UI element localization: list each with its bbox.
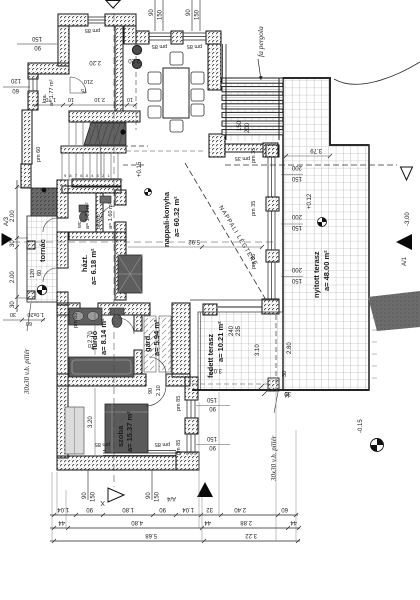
bathtub — [69, 357, 134, 377]
svg-text:pm 85: pm 85 — [152, 43, 167, 49]
glass wall pane 2 — [268, 211, 275, 250]
svg-text:90: 90 — [86, 506, 93, 512]
bath vanity sinks — [69, 308, 102, 325]
svg-text:pm 85: pm 85 — [73, 313, 79, 328]
svg-text:a= 1.60 m²: a= 1.60 m² — [108, 202, 114, 229]
svg-text:pm 85: pm 85 — [176, 440, 182, 455]
svg-text:150: 150 — [206, 396, 217, 402]
svg-text:150: 150 — [237, 120, 243, 131]
top window callout 1 — [149, 0, 164, 31]
open triangle marker top-right — [401, 167, 413, 180]
svg-text:nyitott terasz: nyitott terasz — [312, 251, 321, 298]
svg-text:fa pergola: fa pergola — [256, 26, 265, 57]
svg-text:wc.: wc. — [77, 219, 83, 229]
svg-text:a= 60.32 m²: a= 60.32 m² — [172, 196, 181, 237]
svg-text:2.00: 2.00 — [10, 210, 16, 222]
stair dark flight texture — [89, 123, 125, 145]
szoba south wall — [57, 456, 176, 470]
svg-text:-0.15: -0.15 — [358, 419, 364, 433]
covered terrace (fedett terasz) paved grid — [198, 312, 283, 390]
svg-text:pm 85: pm 85 — [95, 441, 110, 447]
dining chairs left — [148, 52, 204, 132]
terrace south edge heavy line — [192, 389, 369, 391]
west wall step down — [22, 110, 32, 164]
szoba wardrobe — [65, 407, 84, 454]
bottom window callout left — [82, 470, 97, 502]
door arc hall — [101, 206, 115, 220]
svg-text:32: 32 — [206, 506, 213, 512]
kamra door dims — [81, 78, 93, 93]
bath north wall left — [57, 303, 80, 315]
svg-text:a= 10.21 m²: a= 10.21 m² — [216, 321, 225, 362]
szoba east window 1 — [187, 400, 195, 418]
glass wall pier 3 — [266, 250, 279, 262]
gard door dims 90/210 — [148, 385, 162, 396]
section marker A/4 filled triangle — [166, 482, 213, 501]
szoba east wall top piece — [185, 377, 198, 400]
bath-gard divider — [134, 315, 142, 331]
svg-text:30: 30 — [10, 301, 16, 308]
door arc gard — [149, 357, 166, 374]
svg-text:pm 85: pm 85 — [187, 43, 202, 49]
szoba bed — [105, 404, 148, 453]
gard closet strips — [144, 316, 171, 372]
svg-text:3.02: 3.02 — [210, 367, 222, 373]
svg-text:235: 235 — [236, 325, 242, 336]
west wall below window — [28, 91, 38, 110]
glass wall SE corner — [262, 299, 279, 314]
room label gard — [143, 319, 161, 356]
stair hall south wall — [72, 179, 121, 187]
svg-text:3.20: 3.20 — [88, 416, 94, 428]
svg-text:pm 35: pm 35 — [251, 148, 257, 163]
west interior wall mid — [57, 232, 68, 268]
section line X vertical dashed — [113, 2, 115, 487]
svg-text:2.80: 2.80 — [287, 342, 293, 354]
svg-text:A/1: A/1 — [402, 256, 408, 266]
szoba east pier — [185, 418, 198, 434]
covered terrace NW pier — [203, 304, 217, 315]
open triangle marker bottom with X — [100, 488, 124, 506]
svg-text:150: 150 — [195, 9, 201, 20]
svg-text:90: 90 — [159, 506, 166, 512]
dining chairs right — [191, 72, 204, 84]
svg-text:a= 6.18 m²: a= 6.18 m² — [89, 248, 98, 285]
terrace east edge tick marks — [372, 318, 377, 378]
svg-text:X: X — [100, 499, 105, 506]
svg-text:2.40: 2.40 — [234, 506, 246, 512]
bottom dimension chain row 1 — [50, 513, 298, 517]
label 30x30 pillér right — [270, 392, 278, 482]
szoba south-east corner block — [176, 452, 199, 470]
dining table — [163, 68, 189, 118]
svg-text:2.10: 2.10 — [156, 385, 162, 396]
svg-text:tornác: tornác — [38, 239, 47, 262]
interior wall east of hall lower — [115, 222, 126, 300]
kamra south dim line 10/2.10/10 — [33, 96, 137, 107]
roof eave dashed line right — [225, 164, 397, 166]
kitchen counter unit — [118, 255, 142, 293]
svg-text:44: 44 — [204, 519, 211, 525]
svg-text:10: 10 — [127, 96, 133, 102]
porch dark entry mat — [31, 188, 57, 216]
stair lower treads — [62, 153, 123, 180]
wc sink — [100, 196, 111, 203]
west interior wall upper — [57, 180, 68, 218]
label 30x30 pillér left — [23, 303, 31, 395]
svg-text:gard.: gard. — [143, 334, 152, 352]
stair rail hatched band — [61, 146, 126, 153]
terrace dim 3.79 — [283, 147, 332, 158]
svg-text:10: 10 — [68, 96, 74, 102]
svg-text:60: 60 — [281, 506, 288, 512]
bottom dimension chain row 3 — [50, 539, 300, 543]
covered terrace beam line — [218, 306, 262, 308]
svg-text:2.10: 2.10 — [94, 96, 105, 102]
svg-text:200: 200 — [245, 122, 251, 133]
wire — [21, 14, 279, 470]
section marker A/3 filled triangle — [2, 216, 13, 246]
svg-text:nappali-konyha: nappali-konyha — [162, 191, 171, 247]
top window callout 2 — [186, 0, 201, 31]
svg-text:90: 90 — [34, 44, 41, 50]
svg-text:150: 150 — [291, 175, 302, 181]
pm35 labels — [235, 148, 257, 269]
svg-text:150: 150 — [158, 9, 164, 20]
pergola beam — [225, 144, 263, 152]
living top window 1 — [149, 33, 171, 40]
svg-text:30: 30 — [10, 240, 16, 247]
svg-text:4.80: 4.80 — [131, 519, 143, 525]
fedett terasz corner pillar — [258, 371, 291, 398]
svg-text:90: 90 — [186, 9, 192, 16]
vegetation wedge right — [368, 291, 420, 331]
svg-text:90: 90 — [209, 405, 216, 411]
svg-text:pm 85: pm 85 — [176, 396, 182, 411]
kamra south wall — [69, 111, 140, 122]
dining chair bottom — [170, 120, 183, 132]
porch small dims — [30, 269, 43, 278]
svg-text:987654321: 987654321 — [64, 173, 113, 178]
window top-left — [88, 17, 105, 23]
covered terrace west boundary — [200, 312, 202, 390]
bottom window callout mid — [146, 470, 161, 502]
svg-text:30: 30 — [282, 371, 288, 377]
svg-text:2.88: 2.88 — [240, 519, 252, 525]
svg-text:90: 90 — [149, 9, 155, 16]
svg-text:120: 120 — [10, 77, 21, 83]
pergola west beam link — [223, 44, 227, 78]
svg-text:75: 75 — [81, 87, 87, 93]
svg-text:pm 85: pm 85 — [155, 441, 170, 447]
svg-text:200: 200 — [291, 266, 302, 272]
kamra west wall — [58, 26, 69, 66]
svg-text:150: 150 — [206, 435, 217, 441]
svg-text:a= 5.94 m²: a= 5.94 m² — [152, 319, 161, 356]
open triangle marker top edge — [106, 1, 120, 9]
west wall south block — [57, 305, 68, 458]
level symbol porch — [37, 285, 47, 295]
entry columns (dark circles) — [132, 45, 141, 54]
svg-text:pm 35: pm 35 — [251, 201, 257, 216]
open terrace (nyitott terasz) paved grid — [283, 78, 369, 390]
svg-text:150: 150 — [155, 491, 161, 502]
svg-text:2.00: 2.00 — [10, 271, 16, 283]
svg-text:90: 90 — [209, 444, 216, 450]
dining chair top — [170, 52, 183, 65]
bath-gard divider low — [134, 350, 142, 374]
nappali width dim 5.92 — [128, 238, 264, 249]
living airspace diagonal dashed — [185, 163, 266, 300]
svg-text:1.70: 1.70 — [45, 96, 56, 102]
porch column 1 — [27, 241, 35, 249]
boundary curve top right — [334, 62, 420, 84]
svg-text:1.04: 1.04 — [57, 506, 69, 512]
svg-text:240: 240 — [229, 325, 235, 336]
svg-text:90: 90 — [82, 492, 88, 499]
wall top-left piece A — [58, 14, 88, 26]
east pm85 labels — [95, 396, 182, 455]
szoba north wall right piece — [166, 374, 190, 386]
svg-text:a= 1.60 m²: a= 1.60 m² — [85, 202, 91, 229]
room label nyitott terasz — [312, 250, 331, 298]
level mark +0.12 with symbol — [307, 193, 327, 226]
szoba north wall — [57, 374, 146, 386]
glass wall pane dims 200/150 — [291, 164, 302, 283]
svg-text:44: 44 — [58, 519, 65, 525]
svg-text:+0.12: +0.12 — [307, 193, 313, 209]
svg-text:pm 35: pm 35 — [235, 155, 250, 161]
left window callout 120/60 — [3, 77, 30, 93]
svg-text:a= 15.37 m²: a= 15.37 m² — [125, 411, 134, 452]
covered terrace south dashed — [192, 383, 270, 385]
svg-text:3.79: 3.79 — [310, 147, 322, 153]
wall step block — [124, 26, 136, 44]
dashed line below stairs — [123, 164, 146, 166]
left dimension chain — [15, 180, 30, 312]
dashes at stair right — [123, 145, 148, 147]
covered terrace dashed edge — [275, 315, 277, 389]
svg-text:200: 200 — [291, 213, 302, 219]
svg-text:A/4: A/4 — [166, 495, 176, 501]
svg-text:pm 85: pm 85 — [85, 27, 100, 33]
pergola rafter dims 150/200 — [237, 120, 251, 133]
svg-text:30: 30 — [285, 392, 291, 398]
level symbol stairs — [145, 189, 152, 196]
svg-text:2.20: 2.20 — [128, 57, 140, 63]
svg-text:200: 200 — [291, 164, 302, 170]
room label szoba — [116, 411, 134, 452]
hall wall strip — [62, 186, 121, 193]
west wall window jamb upper — [28, 74, 38, 79]
west step band — [28, 63, 69, 74]
svg-text:150: 150 — [31, 35, 42, 41]
wall top-left piece B — [105, 14, 136, 26]
staircase — [61, 122, 126, 180]
svg-text:1.04: 1.04 — [182, 506, 194, 512]
room label fürdő — [90, 318, 108, 355]
svg-text:2.70: 2.70 — [88, 331, 94, 343]
svg-text:150: 150 — [291, 277, 302, 283]
room label nappali-konyha — [162, 191, 181, 247]
svg-text:5.68: 5.68 — [145, 532, 157, 538]
svg-text:60: 60 — [26, 320, 32, 326]
svg-text:30: 30 — [10, 311, 16, 317]
room label előtér — [96, 202, 114, 229]
svg-text:210: 210 — [84, 78, 93, 84]
stair landing dot — [120, 129, 125, 134]
porch (tornac) tiled floor — [27, 216, 57, 302]
pm85 labels top — [85, 27, 202, 49]
glass wall dim separators — [281, 175, 303, 277]
svg-text:3.22: 3.22 — [245, 532, 257, 538]
bath toilet — [110, 308, 124, 328]
porch north wall — [21, 164, 31, 188]
svg-text:a= 48.00 m²: a= 48.00 m² — [322, 250, 331, 291]
door arc kamra — [70, 77, 86, 93]
kamra dashed boundary — [135, 48, 137, 130]
glass wall pier 2 — [266, 197, 279, 211]
svg-text:90: 90 — [148, 388, 154, 394]
wc partition wall — [96, 193, 103, 232]
szoba east window 2 — [187, 434, 195, 455]
pergola leader arrow — [258, 59, 261, 80]
room label wc — [77, 202, 91, 229]
interior wall east of hall upper — [115, 190, 126, 205]
svg-text:60: 60 — [37, 270, 43, 276]
szoba south window sill — [103, 451, 176, 456]
svg-text:1.0x20: 1.0x20 — [27, 311, 44, 317]
svg-text:öltöző: öltöző — [96, 214, 102, 229]
door arc szoba — [146, 386, 166, 406]
covered terrace north edge line — [190, 299, 279, 301]
pergola left pier — [209, 134, 225, 157]
living top wall left end — [136, 31, 149, 44]
east window callouts — [206, 396, 217, 450]
glass wall top pier — [266, 145, 279, 157]
level mark -0.15 with symbol — [358, 419, 384, 452]
west small window — [29, 79, 37, 91]
stair upper treads — [69, 122, 90, 145]
svg-text:pm 35: pm 35 — [251, 254, 257, 269]
west interior wall low — [57, 292, 68, 305]
glass wall pane 1 — [268, 157, 275, 197]
east wall upper — [208, 44, 221, 90]
svg-text:150: 150 — [291, 224, 302, 230]
svg-text:150: 150 — [91, 491, 97, 502]
room label kamra — [42, 79, 55, 106]
svg-text:2.20: 2.20 — [89, 59, 101, 65]
door arc bath — [118, 318, 134, 334]
svg-text:120: 120 — [30, 269, 36, 278]
kamra east wall — [115, 26, 123, 111]
porch column 2 — [27, 291, 35, 299]
door arc porch lower — [43, 268, 57, 282]
room label házt — [80, 248, 98, 285]
wc south wall — [69, 232, 126, 240]
section marker A/1 filled triangle — [396, 234, 412, 266]
covered terrace dims — [210, 325, 293, 396]
living top wall pier — [171, 31, 183, 44]
bottom extension lines — [52, 392, 296, 541]
svg-text:a= 8.14 m²: a= 8.14 m² — [99, 318, 108, 355]
glass wall pane 3 — [268, 262, 275, 299]
svg-text:pm 60: pm 60 — [36, 147, 42, 162]
section line A1-A3 dashed — [13, 241, 276, 243]
szoba dim 3.20 — [88, 388, 95, 455]
door arc porch upper — [43, 218, 57, 232]
svg-text:3.10: 3.10 — [255, 344, 261, 356]
pergola posts — [226, 78, 279, 140]
room label fedett terasz — [206, 321, 225, 378]
kitchen zone dashed — [126, 150, 206, 152]
porch dot — [42, 188, 47, 193]
svg-text:90: 90 — [146, 492, 152, 499]
porch bottom dim line — [3, 311, 45, 326]
svg-text:5.92: 5.92 — [188, 238, 200, 244]
wc toilet — [79, 205, 88, 222]
svg-text:1.80: 1.80 — [122, 506, 134, 512]
pergola right pier — [263, 143, 278, 157]
svg-text:+0.15: +0.15 — [137, 161, 143, 177]
living top window 2 — [183, 33, 206, 40]
svg-text:60: 60 — [12, 87, 19, 93]
gard east exterior wall — [172, 303, 190, 377]
svg-text:házt.: házt. — [80, 255, 89, 272]
svg-text:-3.00: -3.00 — [405, 212, 411, 226]
windows (thin double lines) — [29, 17, 275, 456]
living top-right corner pier — [206, 31, 221, 44]
stair upper dark flight — [84, 123, 126, 145]
svg-text:szoba: szoba — [116, 425, 125, 447]
bath dim 2.70 — [88, 310, 95, 355]
bottom dimension chain row 2 — [50, 526, 301, 530]
slat midlines — [222, 81, 283, 133]
bath north wall right — [98, 303, 150, 315]
pergola decking verticals — [231, 77, 273, 141]
left window callout 150/90 — [17, 35, 57, 50]
svg-text:30x30 v.b. pillér: 30x30 v.b. pillér — [23, 348, 31, 395]
svg-text:30x30 v.b. pillér: 30x30 v.b. pillér — [270, 435, 278, 482]
pergola slats — [222, 78, 283, 135]
stair walk line — [97, 125, 101, 178]
